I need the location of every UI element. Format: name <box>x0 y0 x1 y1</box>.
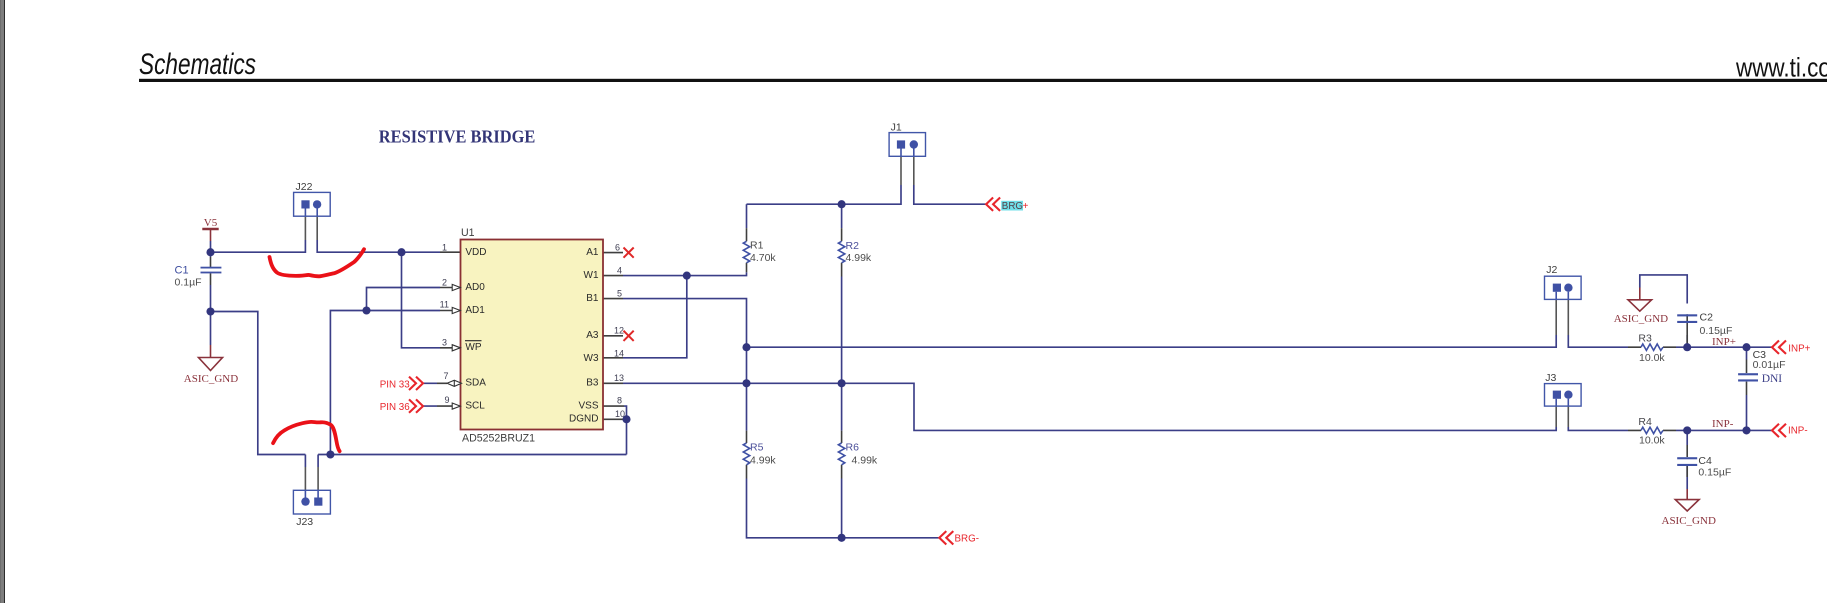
svg-text:INP+: INP+ <box>1788 343 1810 354</box>
svg-text:BRG-: BRG- <box>955 534 980 545</box>
svg-text:J22: J22 <box>296 181 313 193</box>
svg-text:SDA: SDA <box>465 378 486 389</box>
svg-text:AD0: AD0 <box>465 282 485 293</box>
svg-text:R1: R1 <box>750 240 764 252</box>
svg-text:R3: R3 <box>1638 333 1652 345</box>
svg-text:R5: R5 <box>750 442 764 454</box>
svg-text:10.0k: 10.0k <box>1639 352 1665 364</box>
svg-text:4.70k: 4.70k <box>750 252 776 264</box>
svg-text:J23: J23 <box>296 516 313 528</box>
svg-text:A3: A3 <box>586 330 599 341</box>
svg-text:INP-: INP- <box>1788 426 1808 437</box>
svg-text:R2: R2 <box>846 240 860 252</box>
svg-text:0.01µF: 0.01µF <box>1753 359 1786 371</box>
svg-text:6: 6 <box>615 242 620 252</box>
svg-text:4.99k: 4.99k <box>846 252 872 264</box>
svg-text:2: 2 <box>442 277 447 287</box>
svg-text:4.99k: 4.99k <box>852 454 878 466</box>
svg-text:INP-: INP- <box>1712 418 1734 430</box>
svg-text:W3: W3 <box>584 353 599 364</box>
svg-text:Schematics: Schematics <box>139 48 256 81</box>
svg-text:5: 5 <box>617 288 622 298</box>
svg-text:B3: B3 <box>586 378 599 389</box>
svg-text:R6: R6 <box>846 442 860 454</box>
svg-text:R4: R4 <box>1638 416 1652 428</box>
svg-text:www.ti.com: www.ti.com <box>1735 53 1827 83</box>
svg-text:1: 1 <box>442 242 447 252</box>
svg-text:4.99k: 4.99k <box>750 454 776 466</box>
svg-text:C2: C2 <box>1700 311 1714 323</box>
svg-text:RESISTIVE BRIDGE: RESISTIVE BRIDGE <box>379 127 536 147</box>
svg-text:J1: J1 <box>891 122 902 134</box>
svg-text:4: 4 <box>617 265 622 275</box>
svg-text:AD5252BRUZ1: AD5252BRUZ1 <box>462 432 535 444</box>
svg-text:VSS: VSS <box>578 401 598 412</box>
svg-text:10: 10 <box>615 409 625 419</box>
svg-text:BRG: BRG <box>1002 201 1023 212</box>
svg-text:7: 7 <box>443 371 448 381</box>
svg-text:12: 12 <box>614 326 624 336</box>
svg-text:VDD: VDD <box>465 247 486 258</box>
svg-text:INP+: INP+ <box>1712 336 1736 348</box>
svg-text:+: + <box>1023 201 1029 212</box>
svg-text:DNI: DNI <box>1762 373 1783 385</box>
svg-text:J3: J3 <box>1545 372 1556 384</box>
svg-text:V5: V5 <box>204 217 218 229</box>
svg-text:B1: B1 <box>586 293 599 304</box>
svg-text:C4: C4 <box>1698 455 1712 467</box>
svg-text:W1: W1 <box>584 270 599 281</box>
svg-text:0.15µF: 0.15µF <box>1698 466 1731 478</box>
svg-text:14: 14 <box>614 349 624 359</box>
svg-text:PIN 33: PIN 33 <box>380 379 411 390</box>
svg-text:ASIC_GND: ASIC_GND <box>1614 313 1668 325</box>
svg-text:ASIC_GND: ASIC_GND <box>184 373 238 385</box>
svg-text:13: 13 <box>614 373 624 383</box>
svg-text:ASIC_GND: ASIC_GND <box>1662 515 1716 527</box>
svg-text:J2: J2 <box>1546 264 1557 276</box>
svg-text:8: 8 <box>617 396 622 406</box>
svg-text:C1: C1 <box>175 265 189 277</box>
svg-text:10.0k: 10.0k <box>1639 435 1665 447</box>
svg-text:PIN 36: PIN 36 <box>380 402 411 413</box>
svg-text:0.1µF: 0.1µF <box>175 277 202 289</box>
svg-text:SCL: SCL <box>465 401 485 412</box>
svg-text:DGND: DGND <box>569 413 598 424</box>
svg-text:U1: U1 <box>461 227 475 239</box>
svg-text:11: 11 <box>440 299 449 309</box>
svg-text:A1: A1 <box>586 247 599 258</box>
svg-text:9: 9 <box>444 395 449 405</box>
svg-text:WP: WP <box>465 342 481 353</box>
svg-text:AD1: AD1 <box>465 305 485 316</box>
svg-text:3: 3 <box>442 337 447 347</box>
